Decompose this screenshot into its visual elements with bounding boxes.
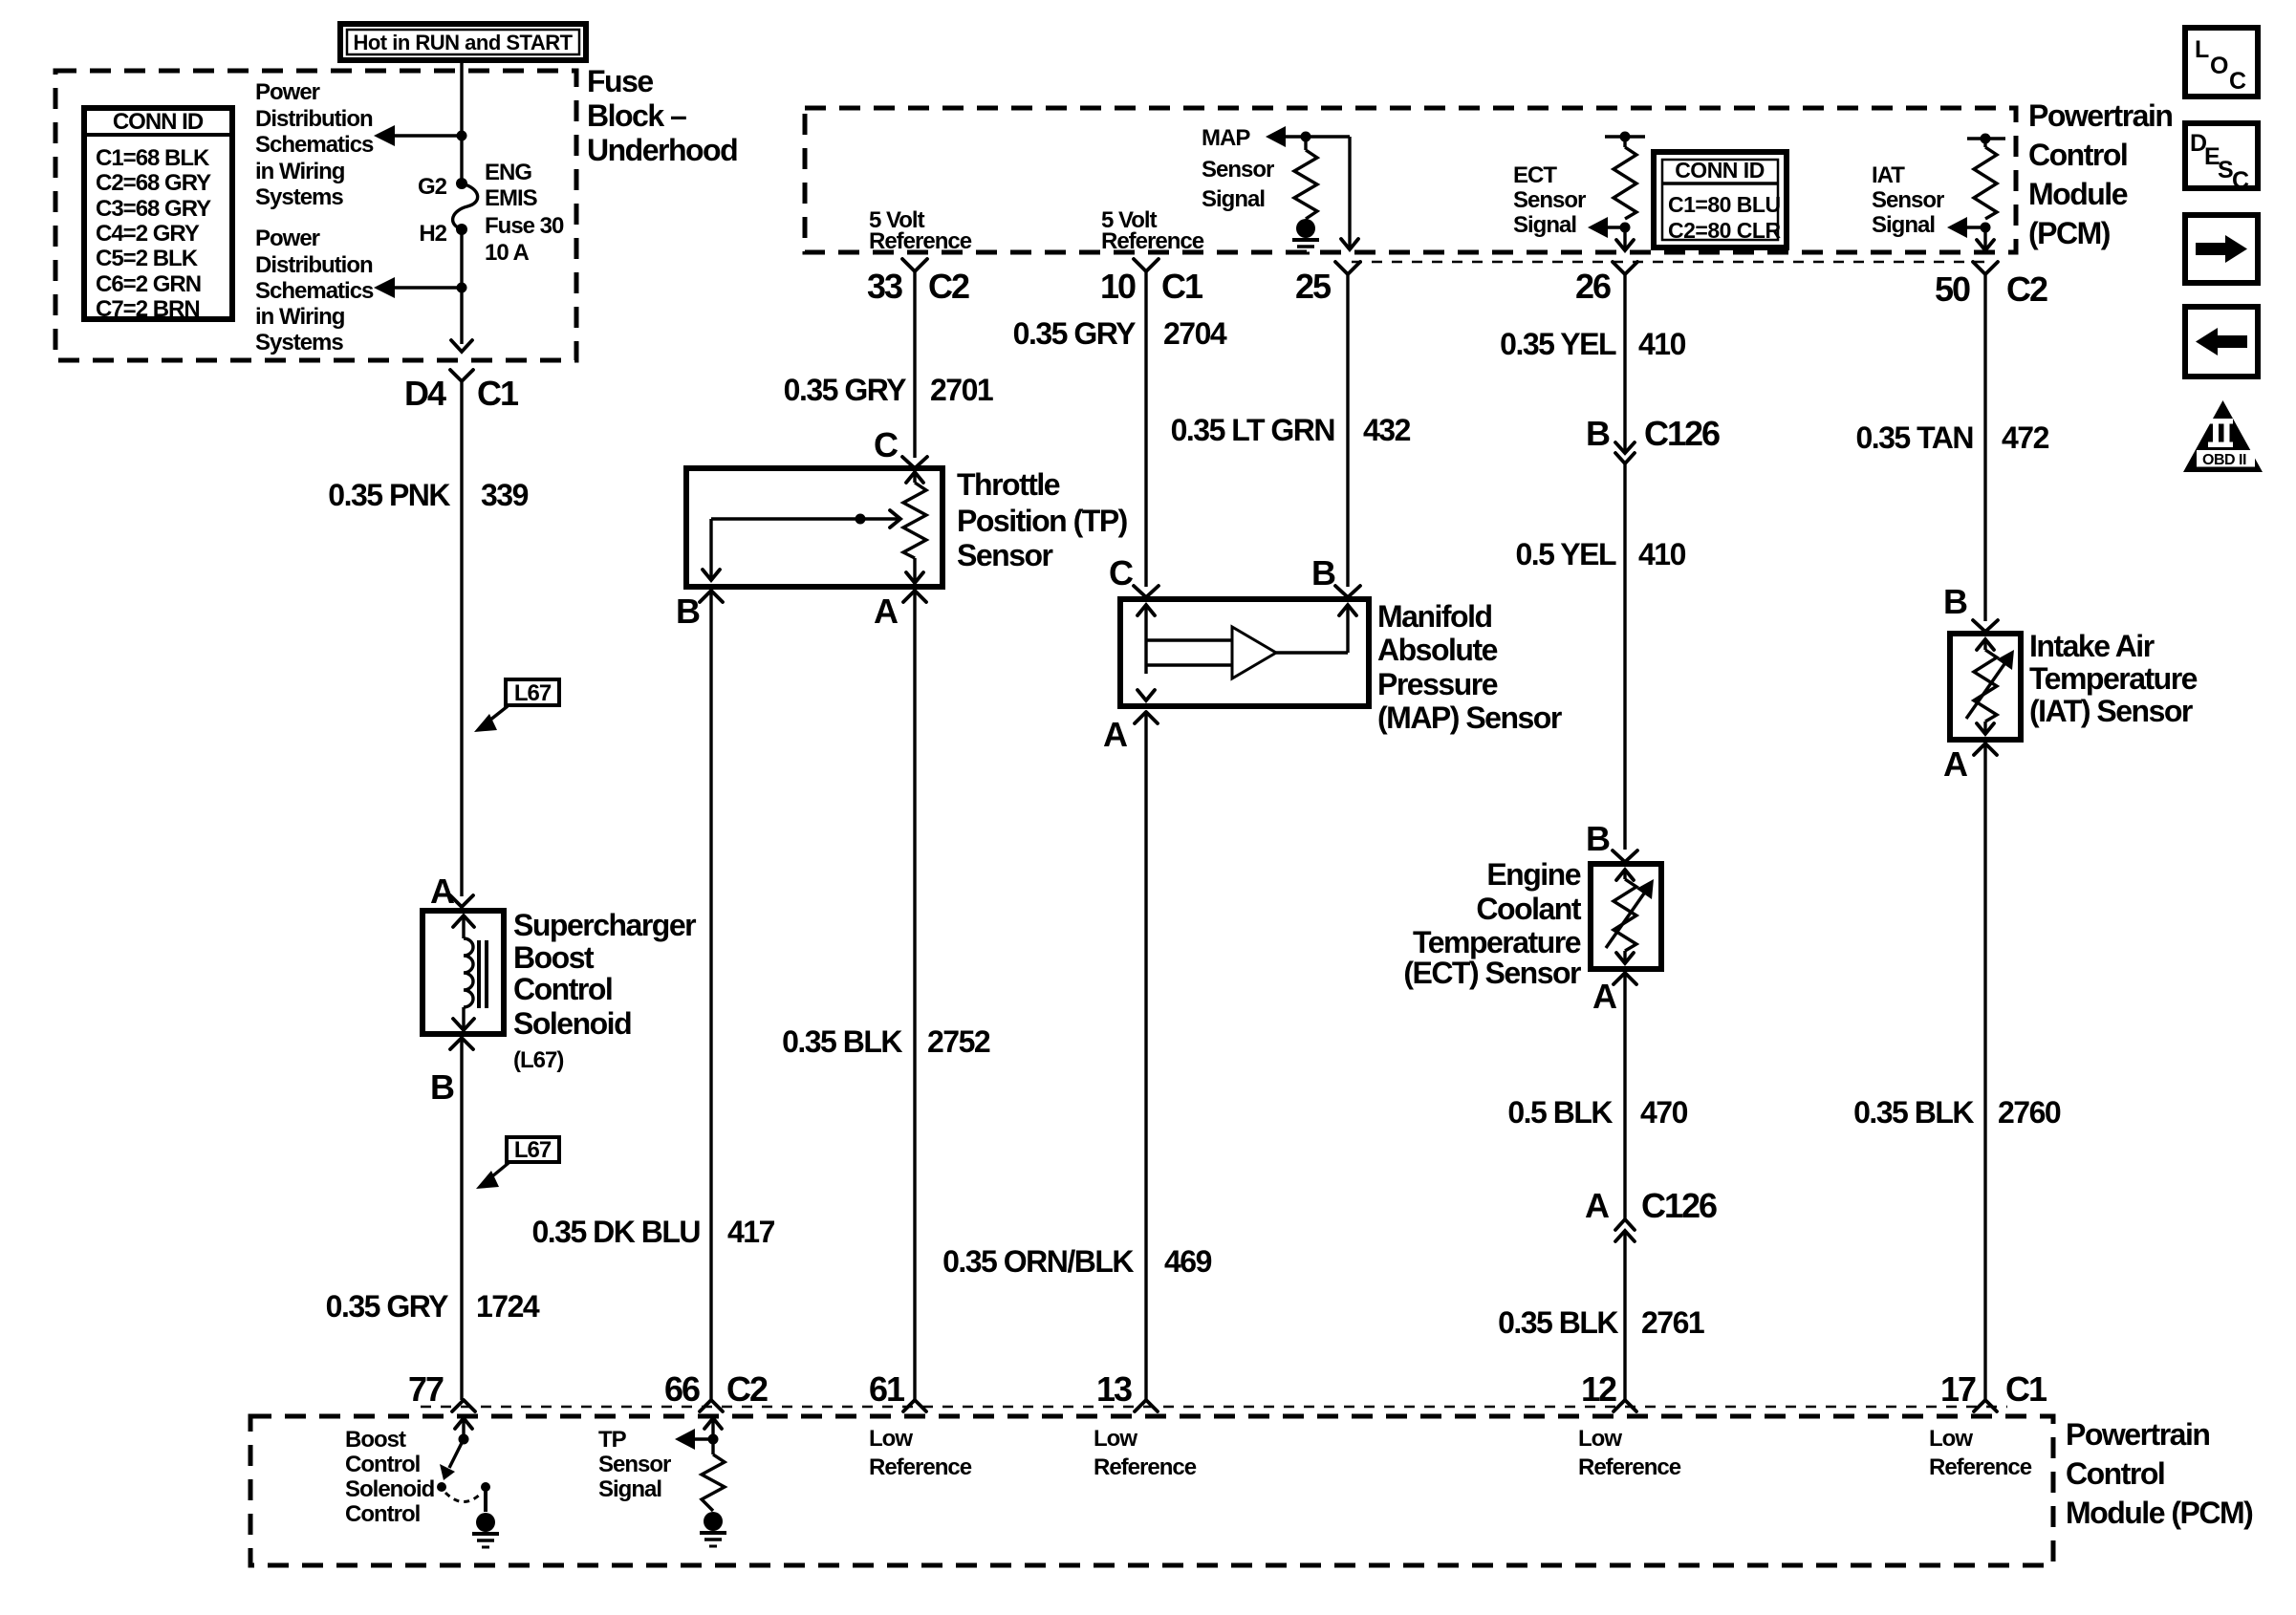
- svg-text:Hot in RUN and START: Hot in RUN and START: [353, 31, 573, 54]
- svg-text:C4=2 GRY: C4=2 GRY: [96, 221, 200, 247]
- svg-text:61: 61: [869, 1369, 905, 1409]
- in-line connector C126 (pin A): [1615, 1219, 1635, 1241]
- svg-text:410: 410: [1638, 537, 1686, 571]
- CONN ID table (PCM): [1654, 152, 1787, 248]
- svg-text:B: B: [1943, 582, 1967, 621]
- svg-text:0.35 DK BLU: 0.35 DK BLU: [531, 1215, 700, 1249]
- component name: Engine Coolant Temperature (ECT) Sensor: [1403, 857, 1582, 990]
- net label: TP Sensor Signal: [598, 1427, 671, 1502]
- connector fork pin 77: [452, 1400, 475, 1411]
- in-line connector C126 (pin B): [1615, 442, 1635, 463]
- svg-text:O: O: [2210, 53, 2228, 79]
- svg-text:Control: Control: [513, 972, 612, 1006]
- connector fork MAP pin A: [1135, 712, 1158, 723]
- right margin icon: OBD II triangle: [2183, 400, 2263, 472]
- ground: MAP signal resistor: [1292, 219, 1319, 253]
- svg-text:A: A: [1943, 744, 1968, 784]
- branch arrow to Power Distribution (lower): [374, 277, 467, 298]
- ground: boost control switch: [472, 1513, 499, 1547]
- svg-text:13: 13: [1096, 1369, 1132, 1409]
- svg-text:C126: C126: [1644, 414, 1720, 453]
- net label: Low Reference (12): [1578, 1426, 1681, 1480]
- svg-text:C1: C1: [2005, 1369, 2047, 1409]
- connector fork pin 13: [1135, 1400, 1158, 1411]
- right margin icon: back arrow box: [2185, 307, 2258, 377]
- svg-text:0.35 BLK: 0.35 BLK: [1853, 1095, 1974, 1130]
- svg-text:C2: C2: [928, 267, 969, 306]
- svg-text:Sensor: Sensor: [1872, 187, 1944, 213]
- engine coolant temperature sensor box: [1591, 864, 1661, 969]
- svg-text:Boost: Boost: [345, 1427, 406, 1453]
- svg-text:C: C: [2229, 68, 2246, 95]
- svg-text:TP: TP: [598, 1427, 627, 1453]
- svg-text:12: 12: [1581, 1369, 1616, 1409]
- arrowhead: fuse wire exits fuse block: [451, 340, 472, 352]
- svg-text:ECT: ECT: [1513, 162, 1557, 188]
- net label: IAT Sensor Signal: [1872, 162, 1944, 238]
- net label: 5 Volt Reference (pin 10): [1101, 207, 1204, 254]
- ground: TP signal resistor: [700, 1512, 726, 1546]
- svg-text:Intake Air: Intake Air: [2029, 629, 2155, 663]
- svg-text:17: 17: [1940, 1369, 1976, 1409]
- svg-text:77: 77: [408, 1369, 444, 1409]
- component name: Intake Air Temperature (IAT) Sensor: [2029, 629, 2198, 728]
- wire: 0.35 BLK 2752 (TP A to PCM 61): [913, 591, 916, 1400]
- svg-text:L67: L67: [514, 1137, 552, 1163]
- svg-text:A: A: [1585, 1186, 1610, 1225]
- svg-text:L67: L67: [514, 680, 552, 706]
- svg-text:Power: Power: [255, 226, 320, 251]
- svg-text:Temperature: Temperature: [1413, 925, 1581, 959]
- IAT sensor signal arrow: [1947, 217, 1994, 250]
- svg-text:Absolute: Absolute: [1377, 633, 1498, 667]
- resistor: IAT signal pull-up: [1967, 134, 2005, 220]
- svg-text:Module (PCM): Module (PCM): [2066, 1496, 2253, 1530]
- Fuse Block - Underhood name: [587, 64, 737, 167]
- thin dashed connector line (bottom pins): [421, 1406, 2007, 1409]
- fuse name: ENG EMIS Fuse 30 10 A: [485, 160, 564, 266]
- svg-text:Low: Low: [1578, 1426, 1622, 1452]
- wire: 0.5 YEL 410 (C126 to ECT B): [1623, 463, 1626, 850]
- svg-text:Fuse: Fuse: [587, 64, 653, 98]
- svg-text:Manifold: Manifold: [1377, 599, 1492, 634]
- branch arrow to Power Distribution (upper): [374, 125, 467, 146]
- svg-text:0.35 GRY: 0.35 GRY: [1013, 316, 1136, 351]
- svg-text:C7=2 BRN: C7=2 BRN: [96, 296, 200, 322]
- svg-text:OBD II: OBD II: [2202, 452, 2246, 468]
- svg-text:2761: 2761: [1641, 1305, 1704, 1340]
- svg-text:Fuse 30: Fuse 30: [485, 213, 564, 239]
- svg-text:C2=80 CLR: C2=80 CLR: [1668, 218, 1781, 243]
- svg-text:0.35 GRY: 0.35 GRY: [326, 1289, 448, 1324]
- svg-text:CONN ID: CONN ID: [1675, 158, 1765, 183]
- svg-text:50: 50: [1935, 269, 1970, 309]
- svg-text:472: 472: [2002, 420, 2049, 455]
- svg-text:Reference: Reference: [1578, 1454, 1681, 1480]
- svg-text:H2: H2: [419, 221, 446, 247]
- svg-text:Reference: Reference: [1101, 228, 1204, 254]
- svg-text:C: C: [874, 425, 899, 464]
- svg-text:D4: D4: [404, 374, 446, 413]
- wire: 0.5 BLK 470 (ECT A to C126): [1623, 973, 1626, 1219]
- svg-text:Module: Module: [2028, 177, 2128, 211]
- net label: ECT Sensor Signal: [1513, 162, 1586, 238]
- svg-text:B: B: [1586, 819, 1610, 858]
- svg-text:B: B: [1586, 414, 1610, 453]
- connector fork IAT pin B: [1973, 620, 1998, 632]
- svg-text:A: A: [430, 872, 455, 911]
- svg-text:0.35 BLK: 0.35 BLK: [1498, 1305, 1618, 1340]
- svg-text:Position (TP): Position (TP): [957, 504, 1128, 538]
- svg-text:Underhood: Underhood: [587, 133, 737, 167]
- net label: Low Reference (13): [1094, 1426, 1197, 1480]
- callout L67 (lower): [476, 1137, 559, 1189]
- wire: 0.35 YEL 410 (pin 26 to C126): [1623, 274, 1626, 451]
- CONN ID table (fuse block): [84, 108, 232, 322]
- supercharger boost control solenoid box: [422, 911, 504, 1034]
- svg-text:Control: Control: [345, 1452, 420, 1477]
- svg-text:Systems: Systems: [255, 330, 343, 355]
- wire: 0.35 BLK 2760 (IAT A to PCM 17): [1983, 743, 1986, 1400]
- wire: 0.35 BLK 2761 (C126 to PCM 12): [1623, 1231, 1626, 1400]
- svg-text:in Wiring: in Wiring: [255, 159, 345, 184]
- svg-text:0.35 TAN: 0.35 TAN: [1855, 420, 1973, 455]
- svg-text:Supercharger: Supercharger: [513, 908, 696, 942]
- svg-text:Reference: Reference: [1929, 1454, 2032, 1480]
- svg-text:Reference: Reference: [869, 228, 972, 254]
- svg-text:Distribution: Distribution: [255, 252, 373, 278]
- svg-text:0.35 LT GRN: 0.35 LT GRN: [1171, 413, 1334, 447]
- wire: 0.35 GRY 1724 (solenoid B to PCM 77): [460, 1038, 463, 1400]
- svg-text:10 A: 10 A: [485, 240, 529, 266]
- svg-text:C1=68 BLK: C1=68 BLK: [96, 145, 210, 171]
- svg-text:(ECT) Sensor: (ECT) Sensor: [1403, 956, 1581, 990]
- svg-text:0.35 ORN/BLK: 0.35 ORN/BLK: [942, 1244, 1134, 1279]
- svg-text:MAP: MAP: [1202, 125, 1250, 151]
- svg-text:Systems: Systems: [255, 184, 343, 210]
- svg-text:Power: Power: [255, 79, 320, 105]
- resistor: MAP signal pull-up: [1294, 137, 1317, 219]
- wire: MAP signal to pin 25: [1341, 137, 1358, 249]
- svg-text:C6=2 GRN: C6=2 GRN: [96, 271, 201, 297]
- svg-text:26: 26: [1575, 267, 1611, 306]
- intake air temperature sensor box: [1950, 634, 2021, 740]
- net label: Boost Control Solenoid Control: [345, 1427, 435, 1527]
- svg-text:C2: C2: [2006, 269, 2047, 309]
- connector fork MAP pin B: [1335, 586, 1360, 597]
- svg-text:Coolant: Coolant: [1476, 892, 1581, 926]
- svg-text:Sensor: Sensor: [1202, 157, 1274, 183]
- svg-text:L: L: [2195, 36, 2209, 63]
- svg-text:Low: Low: [869, 1426, 913, 1452]
- right margin icon: DESC box: [2185, 123, 2258, 194]
- svg-text:Solenoid: Solenoid: [513, 1006, 631, 1041]
- svg-text:Pressure: Pressure: [1377, 667, 1498, 701]
- connector fork TP pin C: [902, 457, 927, 468]
- wire: 0.35 GRY 2701 (pin 33 to TP C): [913, 271, 916, 458]
- connector fork pin 25: [1335, 262, 1360, 274]
- svg-text:Temperature: Temperature: [2029, 661, 2198, 696]
- svg-text:25: 25: [1295, 267, 1332, 306]
- svg-text:Sensor: Sensor: [1513, 187, 1586, 213]
- svg-text:Sensor: Sensor: [957, 538, 1053, 572]
- svg-text:417: 417: [727, 1215, 775, 1249]
- svg-text:Boost: Boost: [513, 940, 595, 975]
- connector fork pin 50: [1973, 262, 1998, 274]
- svg-text:B: B: [1311, 553, 1335, 592]
- Powertrain Control Module (PCM) dashed enclosure (top): [805, 108, 2016, 252]
- connector fork TP pin B: [700, 591, 723, 602]
- svg-text:Low: Low: [1929, 1426, 1973, 1452]
- component name: Throttle Position (TP) Sensor: [957, 467, 1128, 572]
- svg-text:2752: 2752: [927, 1024, 990, 1059]
- svg-text:(MAP) Sensor: (MAP) Sensor: [1377, 700, 1562, 735]
- svg-text:(PCM): (PCM): [2028, 216, 2111, 250]
- svg-text:C1: C1: [1161, 267, 1203, 306]
- svg-text:Reference: Reference: [1094, 1454, 1197, 1480]
- fuse F30 ENG EMIS 10A (element): [453, 178, 478, 235]
- connector fork pin 26: [1613, 262, 1637, 274]
- svg-text:0.35 YEL: 0.35 YEL: [1500, 327, 1616, 361]
- resistor: TP signal (PCM): [702, 1454, 725, 1511]
- right margin icon: LOC box: [2185, 28, 2258, 97]
- svg-text:Throttle: Throttle: [957, 467, 1060, 502]
- connector fork TP pin A: [903, 591, 926, 602]
- svg-text:Distribution: Distribution: [255, 106, 373, 132]
- wire: 0.35 ORN/BLK 469 (MAP A to PCM 13): [1144, 712, 1147, 1400]
- svg-text:0.35 PNK: 0.35 PNK: [328, 478, 450, 512]
- callout L67 (upper): [474, 679, 559, 732]
- svg-text:2760: 2760: [1998, 1095, 2061, 1130]
- right margin icon: forward arrow box: [2185, 215, 2258, 283]
- note: Power Distribution Schematics in Wiring Systems (upper): [255, 79, 374, 210]
- svg-text:2701: 2701: [930, 373, 993, 407]
- svg-text:10: 10: [1100, 267, 1136, 306]
- connector fork pin 61: [903, 1400, 926, 1411]
- svg-text:A: A: [874, 592, 899, 631]
- svg-text:469: 469: [1164, 1244, 1212, 1279]
- connector fork pin 17: [1974, 1400, 1997, 1411]
- connector fork MAP pin C: [1134, 586, 1159, 597]
- svg-text:Low: Low: [1094, 1426, 1137, 1452]
- svg-text:Engine: Engine: [1486, 857, 1580, 892]
- svg-text:Powertrain: Powertrain: [2028, 98, 2172, 133]
- svg-text:2704: 2704: [1163, 316, 1227, 351]
- connector fork: solenoid pin B: [450, 1038, 473, 1049]
- svg-text:(IAT) Sensor: (IAT) Sensor: [2029, 694, 2193, 728]
- IAT thermistor: [1966, 639, 2014, 734]
- note: Power Distribution Schematics in Wiring Systems (lower): [255, 226, 374, 355]
- svg-text:Solenoid: Solenoid: [345, 1476, 435, 1502]
- svg-text:(L67): (L67): [513, 1047, 563, 1073]
- svg-text:C3=68 GRY: C3=68 GRY: [96, 196, 211, 222]
- svg-text:C: C: [1109, 553, 1134, 592]
- Hot in RUN and START label box: [340, 24, 586, 60]
- svg-text:470: 470: [1640, 1095, 1688, 1130]
- svg-text:0.5 YEL: 0.5 YEL: [1515, 537, 1615, 571]
- svg-text:A: A: [1592, 977, 1617, 1016]
- wire: 0.35 DK BLU 417 (TP B to PCM 66): [709, 591, 712, 1400]
- svg-text:Block –: Block –: [587, 98, 686, 133]
- MAP sensor signal arrow into PCM: [1266, 126, 1350, 147]
- connector D4/C1 fork: [450, 370, 473, 381]
- svg-text:Control: Control: [345, 1501, 420, 1527]
- net label: Low Reference (61): [869, 1426, 972, 1480]
- svg-text:Reference: Reference: [869, 1454, 972, 1480]
- net label: Low Reference (17): [1929, 1426, 2032, 1480]
- Powertrain Control Module (PCM) dashed enclosure (bottom): [250, 1416, 2053, 1565]
- svg-text:C126: C126: [1641, 1186, 1717, 1225]
- svg-text:B: B: [430, 1067, 454, 1107]
- PCM name (bottom right): [2066, 1417, 2253, 1530]
- svg-text:B: B: [676, 592, 700, 631]
- svg-text:C1=80 BLU: C1=80 BLU: [1668, 192, 1781, 217]
- connector fork pin 10: [1134, 259, 1159, 271]
- svg-text:in Wiring: in Wiring: [255, 304, 345, 330]
- svg-text:Schematics: Schematics: [255, 278, 374, 304]
- TP sensor signal input (PCM side): [675, 1418, 722, 1454]
- net label: MAP Sensor Signal: [1202, 125, 1274, 212]
- connector fork pin 33: [902, 259, 927, 271]
- svg-text:0.35 BLK: 0.35 BLK: [782, 1024, 902, 1059]
- wire: 0.35 GRY 2704 (pin 10 to MAP C): [1144, 271, 1147, 587]
- svg-text:Control: Control: [2066, 1456, 2164, 1491]
- throttle position sensor box: [686, 468, 942, 587]
- svg-text:1724: 1724: [476, 1289, 540, 1324]
- svg-text:C5=2 BLK: C5=2 BLK: [96, 246, 199, 271]
- svg-text:Signal: Signal: [1202, 186, 1265, 212]
- svg-text:Control: Control: [2028, 138, 2127, 172]
- connector fork IAT pin A: [1974, 743, 1997, 755]
- svg-text:IAT: IAT: [1872, 162, 1905, 188]
- PCM name (top right): [2028, 98, 2172, 250]
- wire: 0.35 TAN 472 (pin 50 to IAT B): [1983, 274, 1986, 621]
- component name: Manifold Absolute Pressure (MAP) Sensor: [1377, 599, 1562, 735]
- svg-text:Powertrain: Powertrain: [2066, 1417, 2209, 1452]
- wire: 0.35 PNK 339 (D4/C1 to solenoid A): [460, 381, 463, 896]
- connector fork ECT pin A: [1614, 973, 1636, 984]
- svg-text:A: A: [1103, 715, 1128, 754]
- svg-text:Schematics: Schematics: [255, 132, 374, 158]
- net label: 5 Volt Reference (pin 33): [869, 207, 972, 254]
- thin dashed connector line (pins 25-50): [1352, 261, 1990, 264]
- wire: fuse output segment: [460, 229, 463, 344]
- svg-text:0.5 BLK: 0.5 BLK: [1507, 1095, 1613, 1130]
- svg-text:Sensor: Sensor: [598, 1452, 671, 1477]
- svg-text:G2: G2: [418, 174, 447, 200]
- connector fork pin 12: [1614, 1400, 1636, 1411]
- boost control solenoid driver switch: [437, 1418, 490, 1512]
- MAP sensor internal amplifier: [1137, 605, 1356, 700]
- ECT sensor signal arrow: [1588, 217, 1634, 250]
- svg-text:CONN ID: CONN ID: [113, 109, 204, 135]
- TP sensor potentiometer track: [903, 472, 926, 583]
- resistor: ECT signal pull-up: [1605, 132, 1645, 220]
- wire: 0.35 LT GRN 432 (pin 25 to MAP B): [1346, 274, 1349, 587]
- svg-text:410: 410: [1638, 327, 1686, 361]
- svg-text:ENG: ENG: [485, 160, 531, 185]
- svg-text:0.35 GRY: 0.35 GRY: [784, 373, 906, 407]
- connector fork ECT pin B: [1613, 851, 1637, 862]
- svg-text:Signal: Signal: [1513, 212, 1576, 238]
- svg-text:EMIS: EMIS: [485, 185, 538, 211]
- connector fork pin 66: [700, 1400, 723, 1411]
- ECT thermistor: [1606, 870, 1654, 963]
- svg-text:C: C: [2232, 167, 2249, 194]
- wire: hot feed into fuse (upper segment): [460, 61, 463, 183]
- svg-text:339: 339: [481, 478, 529, 512]
- svg-text:33: 33: [867, 267, 902, 306]
- component name: Supercharger Boost Control Solenoid (L67): [513, 908, 696, 1073]
- svg-text:C2=68 GRY: C2=68 GRY: [96, 170, 211, 196]
- svg-text:C2: C2: [726, 1369, 768, 1409]
- Fuse Block - Underhood dashed enclosure: [55, 71, 576, 360]
- svg-text:Signal: Signal: [1872, 212, 1935, 238]
- solenoid coil symbol: [453, 915, 487, 1030]
- svg-text:432: 432: [1363, 413, 1411, 447]
- TP sensor wiper arm: [703, 510, 900, 580]
- connector fork: solenoid pin A: [450, 895, 473, 907]
- manifold absolute pressure sensor box: [1120, 599, 1369, 706]
- svg-text:C1: C1: [477, 374, 519, 413]
- svg-text:Signal: Signal: [598, 1476, 661, 1502]
- svg-text:66: 66: [664, 1369, 700, 1409]
